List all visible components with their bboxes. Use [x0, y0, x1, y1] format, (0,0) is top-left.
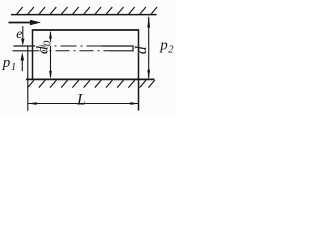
pipe upper line — [14, 45, 134, 47]
svg-text:L: L — [76, 91, 86, 108]
pipe lower line — [13, 50, 134, 52]
d0 dimension line — [49, 30, 52, 78]
ceiling hatch — [17, 7, 158, 14]
e dim down arrow — [21, 26, 24, 46]
d / p2 dimension line — [147, 15, 150, 79]
svg-text:d: d — [133, 45, 150, 54]
floor wall line — [26, 78, 155, 80]
floor hatch — [28, 80, 155, 88]
L dimension line — [28, 102, 139, 105]
pipe right end cap — [132, 45, 134, 51]
ceiling wall line — [11, 14, 157, 16]
vessel top line — [33, 29, 139, 31]
thick flow arrow — [9, 20, 42, 25]
L left extension line — [27, 46, 29, 111]
e / p1 up arrow — [21, 52, 25, 71]
vessel left edge — [32, 29, 34, 80]
svg-text:e: e — [16, 27, 22, 42]
vessel right edge / L right extension — [138, 29, 140, 110]
